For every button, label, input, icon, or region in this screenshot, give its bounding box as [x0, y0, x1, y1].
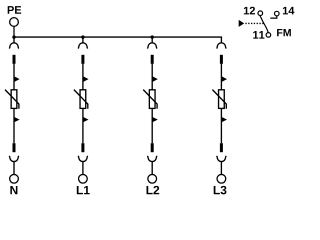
branch L2 [143, 37, 158, 183]
actuator arrow [239, 20, 245, 27]
contact 14 bent wire [270, 16, 277, 18]
switch lever [261, 17, 268, 32]
contact 11 circle [266, 33, 271, 38]
label L2 [147, 186, 160, 194]
label FM [277, 29, 291, 36]
node junction dot branch 1 [12, 35, 15, 38]
label PE [8, 6, 22, 14]
FM remote indication contact [239, 7, 295, 39]
contact 12 circle [258, 11, 263, 16]
contact 12 stub [259, 16, 261, 18]
wire PE to bus [13, 26, 15, 37]
contact 14 circle [275, 11, 280, 16]
node junction dot branch 2 [81, 35, 84, 38]
label L3 [214, 186, 227, 195]
label 14 [283, 7, 294, 15]
node junction dot branch 3 [151, 35, 154, 38]
mechanical link (dotted) [245, 22, 264, 24]
branch L1 [74, 37, 89, 183]
PE terminal circle [10, 18, 19, 27]
label L1 [77, 186, 90, 194]
label 12 [244, 7, 255, 15]
PE bus wire [14, 36, 222, 38]
label N [10, 186, 17, 194]
branch N [5, 37, 20, 183]
branch L3 [212, 37, 227, 183]
label 11 [253, 31, 264, 39]
